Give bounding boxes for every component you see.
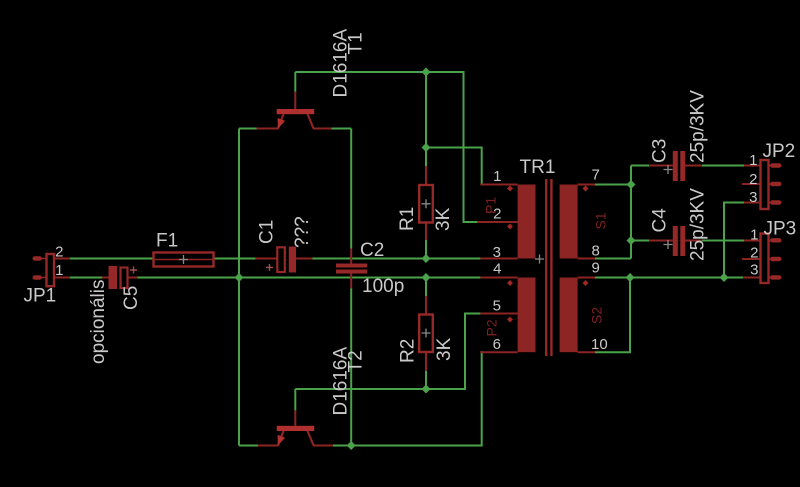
svg-text:???: ??? <box>292 216 313 248</box>
wire JP3 pin3 stub <box>743 277 761 279</box>
svg-text:T2: T2 <box>346 350 367 372</box>
svg-text:C5: C5 <box>121 286 142 310</box>
connector JP3 <box>761 234 782 284</box>
svg-text:C3: C3 <box>650 139 671 163</box>
wire TR1 pin9 stub <box>578 277 595 279</box>
wire TR1 pin3 stub <box>480 258 517 260</box>
wire JP2 pin1 stub <box>744 165 761 167</box>
svg-text:1: 1 <box>55 262 63 279</box>
wire C4 row right to JP3.1 <box>702 240 744 242</box>
svg-text:P2: P2 <box>484 319 500 336</box>
junction main row / R1 bottom <box>422 254 431 263</box>
wire TR1 pin4 stub <box>480 277 517 279</box>
svg-text:R2: R2 <box>398 339 419 363</box>
wire T2 emitter to bus <box>239 445 258 447</box>
wire C4 leads <box>649 240 702 242</box>
wire C1 leads <box>256 258 313 260</box>
svg-text:1: 1 <box>750 227 758 244</box>
wire emitter bus vertical x239 <box>238 129 240 446</box>
svg-text:100p: 100p <box>362 276 404 297</box>
svg-text:R1: R1 <box>397 207 418 231</box>
svg-text:2: 2 <box>750 245 758 262</box>
svg-text:1: 1 <box>749 152 757 169</box>
capacitor C3 <box>673 151 686 181</box>
winding P1 <box>518 185 536 259</box>
wire TR1 pin2 stub <box>477 221 518 223</box>
junction lower row / emitter bus <box>235 273 244 282</box>
wire T2 collector row to TR1 pin6 <box>333 352 482 445</box>
wire R1 leads <box>425 166 427 240</box>
wire C2 leads <box>350 249 352 289</box>
junction lower row / R2 top <box>422 273 431 282</box>
svg-text:7: 7 <box>592 167 600 184</box>
wire C3 row left <box>631 165 649 167</box>
wire T1 base row y72 <box>295 72 480 222</box>
fuse F1 <box>154 253 214 267</box>
polarity dots <box>507 186 589 323</box>
svg-text:C2: C2 <box>360 240 384 261</box>
wire T1 base lead green <box>294 72 296 92</box>
transistor T2 (PNP D1616A) <box>258 410 333 445</box>
wire JP3 pin1 stub <box>744 240 761 242</box>
junction pin9/pin10 node <box>626 273 635 282</box>
wire TR1 pin10 up to pin9 row <box>595 278 630 353</box>
wire C5 leads <box>102 277 138 279</box>
svg-text:1: 1 <box>493 168 501 185</box>
svg-text:F1: F1 <box>156 231 178 252</box>
svg-text:3K: 3K <box>434 337 455 361</box>
wire TR1 pin6 stub <box>480 351 517 353</box>
transformer TR1 <box>507 179 589 356</box>
svg-text:10: 10 <box>591 336 608 353</box>
wire main row F1 to C1 <box>214 258 256 260</box>
junction C4 node <box>627 236 636 245</box>
svg-text:TR1: TR1 <box>520 157 556 178</box>
winding S2 <box>560 278 578 353</box>
resistor R1 <box>419 185 433 223</box>
capacitor C2 <box>336 264 367 274</box>
wire T1 emitter to bus <box>239 128 257 130</box>
wire TR1 pin10 stub <box>578 351 595 353</box>
wire R2 top to lower row <box>425 278 427 297</box>
svg-text:S1: S1 <box>593 212 609 229</box>
wire T2 base lead green <box>294 389 296 410</box>
svg-text:S2: S2 <box>589 307 605 324</box>
junction pin7 node <box>627 180 636 189</box>
wire lower row C5 to TR1 pin4 <box>138 277 481 279</box>
wire R2 bottom to T2 base row <box>425 371 427 389</box>
wire lower row JP1.1 to C5 <box>70 277 102 279</box>
svg-text:3K: 3K <box>433 207 454 231</box>
wire node row y147.5 to TR1 pin1 <box>426 148 482 185</box>
wire C2 column upper <box>350 129 352 249</box>
wire TR1 pin1 stub <box>480 184 517 186</box>
wire C4 row left <box>631 240 649 242</box>
svg-text:JP1: JP1 <box>24 286 57 307</box>
svg-text:C4: C4 <box>650 208 671 233</box>
capacitor C4 <box>673 226 686 256</box>
wire TR1 pin5 stub <box>480 313 517 315</box>
wire TR1 pin7 stub <box>578 184 595 186</box>
wire TR1 pin8 stub <box>578 258 595 260</box>
svg-text:3: 3 <box>493 244 501 261</box>
resistor R2 <box>419 315 433 353</box>
svg-text:C1: C1 <box>257 220 278 244</box>
connector JP2 <box>761 160 782 209</box>
svg-text:T1: T1 <box>346 32 367 54</box>
svg-text:25p/3KV: 25p/3KV <box>688 188 709 261</box>
wire JP2 pin3 stub <box>744 202 761 204</box>
svg-text:8: 8 <box>592 243 600 260</box>
svg-text:25p/3KV: 25p/3KV <box>688 90 709 163</box>
wire main row C1 to TR1 pin3 <box>313 258 481 260</box>
svg-text:2: 2 <box>55 244 63 261</box>
svg-text:JP2: JP2 <box>763 141 796 162</box>
svg-text:6: 6 <box>493 336 501 353</box>
junction T1 base / R1 node <box>422 68 431 77</box>
svg-text:P1: P1 <box>483 197 499 214</box>
junction T2 base row / R2 bottom <box>422 385 431 394</box>
wire R1 column upper <box>425 72 427 166</box>
wire R1 bottom to main row <box>425 240 427 259</box>
wire C3 row right to JP2.1 <box>702 165 744 167</box>
winding P2 <box>518 278 536 353</box>
capacitor C5 (polarized) <box>109 266 138 289</box>
junction R1 top node <box>422 143 431 152</box>
wire node column x631 (C3-C4-pin8) <box>630 166 632 259</box>
wire R2 leads <box>425 296 427 371</box>
transistor T1 (PNP D1616A) <box>257 92 332 129</box>
wire T1 collector to C2 column <box>332 128 352 130</box>
svg-text:opcionális: opcionális <box>88 280 109 365</box>
wire TR1 pin9 row to JP3.3 <box>595 277 743 279</box>
wire JP2.3 column <box>724 203 744 278</box>
junction pin9/JP2.3 node <box>720 273 729 282</box>
capacitor C1 (polarized) <box>266 247 296 273</box>
wire C3 leads <box>649 165 702 167</box>
wire JP1 pin2 stub <box>54 258 70 260</box>
wire C2 column lower <box>350 289 352 446</box>
wire T2 base row y389 <box>295 314 480 390</box>
svg-text:2: 2 <box>749 171 757 188</box>
wire TR1 pin8 to node column <box>595 258 631 260</box>
wire JP3 pin2 stub <box>742 258 761 260</box>
wire JP1 pin1 stub <box>54 277 70 279</box>
wire main row left (JP1.2 to F1) <box>70 258 154 260</box>
svg-text:JP3: JP3 <box>764 219 797 240</box>
svg-text:4: 4 <box>493 261 501 278</box>
winding S1 <box>560 185 578 259</box>
wire JP2 pin2 stub <box>742 183 761 185</box>
connector JP1 <box>33 254 55 286</box>
svg-text:3: 3 <box>749 189 757 206</box>
core <box>546 179 551 356</box>
svg-text:9: 9 <box>592 260 600 277</box>
wire TR1 pin7 to node column <box>595 184 631 186</box>
junction T2 collector / C2 column <box>347 441 356 450</box>
svg-text:5: 5 <box>493 298 501 315</box>
svg-text:3: 3 <box>750 262 758 279</box>
